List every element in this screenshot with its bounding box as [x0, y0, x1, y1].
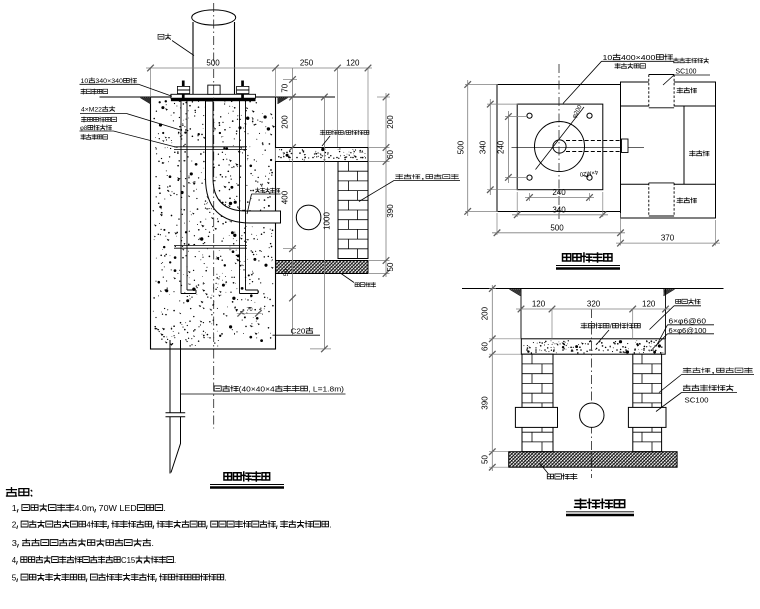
labels 砖砌体 (plan)	[677, 88, 697, 94]
svg-text:70: 70	[281, 83, 290, 92]
svg-text:200: 200	[386, 115, 395, 129]
svg-text:50: 50	[283, 269, 290, 277]
svg-text:500: 500	[206, 59, 220, 68]
small dim 70 under anchor bolts	[237, 312, 262, 314]
label 覆耕植土	[676, 299, 701, 304]
svg-text:/: /	[610, 324, 612, 331]
svg-text:200: 200	[281, 115, 290, 129]
svg-text:70W LED: 70W LED	[99, 503, 137, 513]
pole sleeve	[208, 85, 220, 94]
svg-text:500: 500	[550, 223, 564, 232]
soil hatch right	[664, 289, 675, 296]
svg-text:C15: C15	[121, 555, 135, 565]
conduit block left (section)	[515, 407, 557, 427]
svg-text:50: 50	[481, 455, 490, 464]
svg-text:250: 250	[300, 59, 314, 68]
title 基础立面图	[224, 472, 270, 481]
soil hatch left of foundation	[140, 98, 150, 104]
well pipe circle (elevation)	[296, 205, 321, 230]
soil hatch right of foundation	[278, 98, 288, 104]
svg-text:500: 500	[457, 140, 466, 154]
svg-text:370: 370	[661, 234, 675, 243]
soil hatch left	[510, 289, 521, 296]
label 灯具	[158, 34, 171, 40]
ground line left	[100, 96, 151, 98]
svg-text:SC100: SC100	[676, 69, 697, 76]
phi8 tie ring upper	[174, 146, 247, 148]
bolt+nuts left above plate	[182, 81, 185, 99]
svg-text:,: ,	[710, 368, 716, 375]
gravel cushion (section)	[509, 452, 677, 468]
svg-text:1: 1	[12, 503, 17, 513]
excavation edges	[520, 289, 522, 339]
plan centerlines	[512, 146, 645, 148]
svg-text:120: 120	[532, 300, 546, 309]
svg-text:120: 120	[346, 59, 360, 68]
svg-text:400×400: 400×400	[621, 53, 655, 62]
svg-text:4: 4	[12, 555, 17, 565]
pole base circle	[535, 122, 585, 172]
svg-text:2: 2	[12, 520, 17, 530]
svg-text:390: 390	[386, 204, 395, 218]
cover slab	[521, 339, 665, 354]
ground line	[462, 288, 724, 290]
label 通往预埋管线 SC100 (plan)	[674, 58, 709, 63]
foundation concrete block C20	[151, 97, 276, 349]
svg-text:3: 3	[12, 538, 17, 548]
label 通往预埋管线 SC100 (section)	[683, 385, 733, 391]
steel plate square	[517, 104, 603, 190]
diameter line φ200	[536, 107, 585, 170]
svg-text:340: 340	[478, 140, 487, 154]
svg-text:200: 200	[481, 306, 490, 320]
bolt holes	[527, 113, 532, 118]
svg-text:.: .	[163, 503, 165, 513]
svg-text:.: .	[151, 538, 154, 548]
break symbol	[166, 412, 186, 414]
svg-text:60: 60	[481, 342, 490, 351]
label 碎石垫层 (section)	[547, 474, 577, 480]
lamp pole	[192, 22, 194, 94]
dim line top 500 250 120	[146, 67, 372, 69]
gravel cushion (elevation)	[276, 261, 369, 274]
label 电缆保护管	[256, 188, 280, 193]
svg-text:C20: C20	[291, 327, 306, 336]
ground line right	[276, 96, 336, 98]
svg-text:(40×40×4: (40×40×4	[239, 385, 275, 394]
conduit block bottom (plan)	[649, 183, 674, 216]
svg-text:SC100: SC100	[685, 396, 709, 405]
top dims 120/320/120	[516, 308, 670, 310]
svg-text:4.0m: 4.0m	[74, 503, 94, 513]
svg-text:50: 50	[386, 262, 395, 271]
dim 1000 well depth	[323, 97, 325, 349]
svg-text:400: 400	[281, 190, 290, 204]
svg-text:.: .	[174, 555, 176, 565]
svg-text:5: 5	[12, 573, 17, 583]
brick wall right (section)	[633, 354, 662, 452]
precast well cover slab (elevation)	[276, 148, 369, 162]
plan left dims 500/340/240	[467, 80, 469, 216]
slab rebar dots	[526, 349, 528, 351]
svg-text:70: 70	[246, 307, 252, 313]
notes heading 说明：	[7, 488, 32, 496]
svg-text:60: 60	[386, 150, 395, 159]
slab rebar dots	[280, 157, 282, 159]
pipe circle (section)	[580, 403, 604, 427]
conduit block top (plan)	[649, 75, 674, 108]
svg-text:10: 10	[603, 53, 613, 62]
svg-text:.: .	[329, 520, 331, 530]
dim chain right 200 60 390 50	[385, 93, 387, 277]
steel plate 10x340x340	[171, 94, 256, 98]
cable conduit J-bend 电缆保护管	[206, 101, 281, 223]
brick wall (elevation)	[338, 162, 368, 259]
well plan inner walls	[621, 105, 716, 107]
svg-text:240: 240	[552, 188, 566, 197]
svg-text:120: 120	[642, 300, 656, 309]
well centerline	[591, 309, 593, 478]
label 碎石垫层 (elev)	[355, 282, 376, 287]
brick wall left (section)	[522, 354, 553, 452]
conduit block right (section)	[628, 407, 666, 427]
ground electrode bar	[169, 340, 171, 413]
svg-text:340: 340	[552, 205, 566, 214]
anchor bolt right embedded	[240, 101, 259, 294]
title 基础平面图	[563, 253, 612, 262]
svg-text:240: 240	[497, 140, 506, 154]
bolt+nuts right above plate	[241, 81, 244, 99]
title 检查井图	[575, 499, 625, 508]
svg-text:390: 390	[481, 396, 490, 410]
svg-text:.: .	[225, 573, 227, 583]
svg-text:4×M22: 4×M22	[81, 107, 102, 114]
well plan outer	[621, 82, 716, 218]
plan bottom dims 240/340/500/370	[525, 197, 594, 199]
anchor bolt left embedded	[181, 101, 196, 294]
pole centerline	[213, 3, 215, 429]
svg-text:, L=1.8m): , L=1.8m)	[308, 385, 344, 394]
pole inner circle	[553, 140, 566, 153]
outer foundation square 500x500	[497, 85, 621, 212]
conduit slot in plan	[566, 140, 622, 142]
svg-text:4: 4	[86, 520, 91, 530]
phi8 tie ring lower	[174, 245, 247, 247]
electrode lower + tip	[170, 417, 181, 474]
left chain 200/60/390/50	[491, 285, 493, 471]
svg-text:1000: 1000	[323, 212, 332, 230]
dim chain left of well 70 200 400 50	[292, 68, 294, 335]
svg-text:320: 320	[587, 300, 601, 309]
